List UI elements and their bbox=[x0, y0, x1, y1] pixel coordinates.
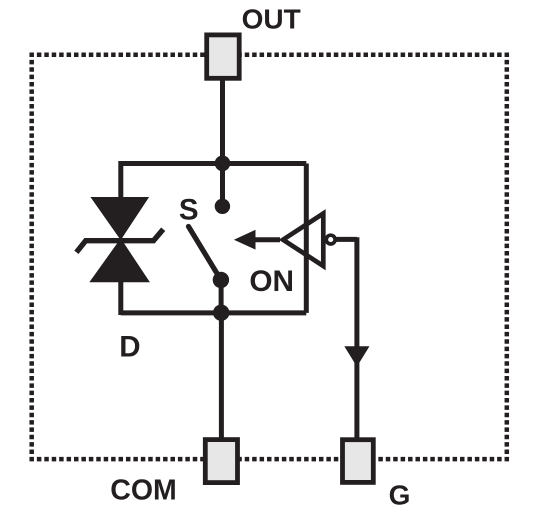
diode D bar with bent ends bbox=[76, 229, 163, 252]
inverter output bubble bbox=[326, 235, 335, 244]
wire top junction to switch pole bbox=[220, 163, 225, 206]
svg-text:S: S bbox=[179, 193, 199, 226]
wire bubble to G corner bbox=[336, 237, 357, 242]
switch pole contact dot bbox=[215, 199, 230, 214]
diode D top triangle bbox=[91, 198, 148, 240]
wire G corner down to G pad bbox=[354, 237, 359, 440]
op-amp inverter U1 triangle bbox=[283, 214, 323, 267]
switch box right edge bbox=[304, 164, 309, 313]
OUT pad bbox=[207, 35, 240, 78]
top junction dot bbox=[215, 156, 231, 172]
svg-text:D: D bbox=[119, 331, 140, 364]
wire box corner down to diode D top bbox=[118, 161, 123, 199]
COM pad bbox=[205, 440, 237, 483]
switch box top edge bbox=[121, 161, 306, 166]
diode D bottom triangle bbox=[90, 239, 149, 282]
svg-text:G: G bbox=[389, 480, 411, 511]
inverter drive line to switch bbox=[252, 237, 280, 242]
chip boundary dotted border bbox=[29, 55, 509, 459]
wire diode D bottom to box bottom edge bbox=[118, 280, 123, 315]
switch box bottom edge bbox=[121, 310, 306, 315]
svg-text:ON: ON bbox=[249, 265, 294, 298]
arrowhead on G wire pointing down bbox=[344, 346, 369, 366]
G pad bbox=[343, 440, 374, 483]
switch throw contact dot bbox=[213, 272, 229, 288]
wire bottom junction to COM pad bbox=[219, 313, 224, 440]
wire OUT pad to top junction bbox=[220, 78, 225, 163]
svg-text:OUT: OUT bbox=[242, 4, 301, 35]
bottom junction dot bbox=[213, 305, 229, 321]
switch arm bbox=[189, 227, 221, 280]
svg-text:COM: COM bbox=[110, 474, 177, 506]
inverter drive arrowhead bbox=[234, 230, 256, 250]
wire switch throw to bottom junction bbox=[219, 280, 224, 313]
